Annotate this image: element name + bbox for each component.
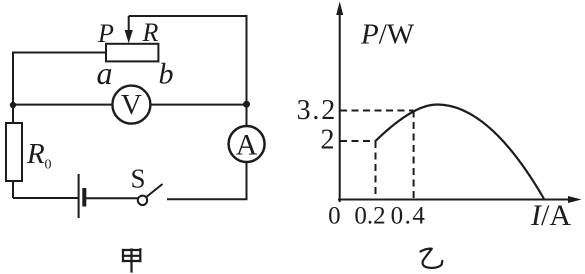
svg-text:P/W: P/W: [360, 19, 415, 51]
svg-text:a: a: [97, 55, 113, 91]
svg-text:3.2: 3.2: [297, 95, 337, 126]
svg-text:V: V: [121, 89, 142, 121]
svg-text:2: 2: [321, 125, 335, 156]
svg-text:I/A: I/A: [530, 199, 571, 232]
svg-text:0.2: 0.2: [354, 203, 385, 230]
svg-text:R: R: [142, 18, 159, 47]
svg-text:S: S: [131, 164, 146, 194]
svg-text:0.4: 0.4: [391, 203, 427, 230]
svg-text:A: A: [236, 129, 258, 162]
svg-text:0: 0: [45, 158, 52, 173]
svg-text:0: 0: [328, 203, 341, 230]
svg-text:P: P: [97, 19, 114, 48]
svg-text:b: b: [159, 58, 174, 91]
svg-text:R: R: [26, 138, 45, 170]
